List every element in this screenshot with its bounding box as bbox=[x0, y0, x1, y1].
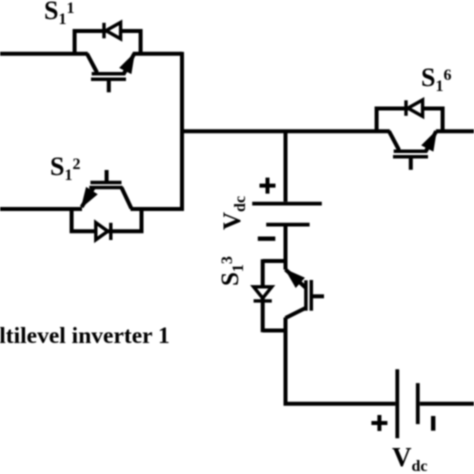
label S1^3 (rotated) bbox=[218, 256, 243, 286]
label S1^1 bbox=[44, 0, 74, 24]
transistor Q1 emitter lead bbox=[124, 54, 134, 74]
diode D3 triangle bbox=[254, 287, 272, 298]
battery B1 positive plate (long) bbox=[252, 202, 322, 206]
transistor Q2 emitter arrow bbox=[82, 188, 97, 207]
plus sign of B2 bbox=[371, 415, 387, 431]
transistor Q3 emitter arrow bbox=[286, 270, 304, 287]
battery B2 positive plate (long) bbox=[395, 369, 399, 438]
transistor Q2 lower bar bbox=[89, 186, 122, 190]
wire junction to battery B1 bbox=[284, 131, 288, 202]
transistor Q3 gate bar bbox=[310, 280, 314, 311]
plus sign of B1 bbox=[260, 178, 276, 194]
diode D1 bar (cathode) bbox=[102, 23, 105, 39]
wire mid output bus left part bbox=[182, 129, 390, 133]
transistor Q1 upper bar bbox=[92, 72, 126, 76]
transistor Q3 outer bar bbox=[304, 280, 308, 310]
diode D1 triangle bbox=[106, 22, 121, 38]
minus sign of B2 (rotated) bbox=[431, 416, 435, 431]
minus sign of B1 bbox=[258, 236, 276, 240]
label S1^6 bbox=[421, 65, 451, 91]
label V_dc of B2 bbox=[392, 444, 428, 471]
transistor Q1 gate stub bbox=[107, 81, 111, 92]
transistor Q2 collector lead bbox=[122, 188, 132, 209]
transistor Q6 upper bar bbox=[394, 149, 428, 153]
transistor Q2 gate bar bbox=[90, 181, 121, 185]
diode loop of S1_1 bbox=[75, 31, 141, 54]
wire vertical rail right of S1_1/S1_2 bbox=[180, 52, 184, 211]
wire battery B1 to S1_3 bbox=[284, 226, 288, 270]
label S1^2 bbox=[50, 154, 80, 180]
caption Multilevel inverter 1 (cropped) bbox=[0, 325, 170, 349]
wire S1_3 top jog bbox=[263, 259, 286, 263]
transistor Q2 emitter lead bbox=[82, 188, 94, 208]
transistor Q6 emitter arrow bbox=[422, 131, 436, 151]
label V_dc of B1 (rotated) bbox=[220, 196, 245, 230]
wire left top rail to S1_1 bbox=[0, 52, 88, 56]
transistor Q3 collector lead bbox=[286, 308, 306, 318]
wire S1_3 to bottom bus bbox=[286, 318, 396, 404]
diode D2 triangle bbox=[96, 223, 108, 240]
wire S1_3 bottom jog bbox=[263, 329, 286, 333]
transistor Q3 (S1_3) emitter lead bbox=[286, 270, 306, 288]
wire S1_2 right lead to rail bbox=[131, 207, 184, 211]
transistor Q1 gate bar bbox=[91, 77, 126, 81]
transistor Q2 (S1_2) gate stub bbox=[105, 170, 109, 183]
transistor Q1 (S1_1) collector lead bbox=[87, 54, 97, 73]
transistor Q6 (S1_6) collector lead bbox=[389, 131, 399, 150]
transistor Q6 gate stub bbox=[409, 158, 413, 169]
transistor Q6 gate bar bbox=[393, 155, 428, 159]
wire bottom bus right of B2 bbox=[420, 402, 474, 406]
transistor Q6 emitter lead bbox=[426, 131, 436, 151]
diode loop of S1_6 bbox=[377, 109, 443, 132]
diode D6 bar (cathode) bbox=[404, 100, 407, 116]
diode D3 bar (cathode) bbox=[254, 299, 272, 302]
wire S1_3 left branch bbox=[261, 259, 265, 332]
transistor Q3 gate stub bbox=[312, 294, 324, 298]
wire S1_1 emitter node to right corner bbox=[133, 52, 182, 56]
diode D6 triangle bbox=[408, 100, 423, 116]
transistor Q1 emitter arrow bbox=[120, 54, 134, 74]
wire left bottom rail to S1_2 bbox=[0, 207, 82, 211]
diode D2 bar (cathode) bbox=[109, 223, 112, 240]
wire mid output bus right part bbox=[436, 129, 474, 133]
battery B2 negative plate (short) bbox=[416, 383, 420, 424]
battery B1 negative plate (short) bbox=[266, 223, 309, 227]
diode loop of S1_2 bbox=[72, 209, 142, 231]
